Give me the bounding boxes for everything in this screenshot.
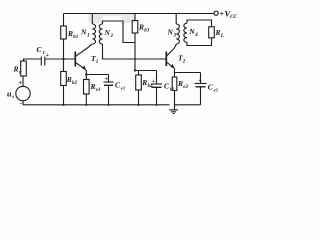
node base T1 junction dot [62, 58, 64, 60]
svg-text:CC: CC [230, 14, 237, 20]
wire N2 bottom to base T2 [103, 44, 166, 59]
svg-text:R: R [67, 29, 73, 38]
inductor N4 secondary [184, 23, 187, 42]
source us [16, 86, 30, 100]
terminal +Vcc circle [214, 11, 218, 15]
svg-text:u: u [7, 89, 12, 98]
wire N2 top to bias node [103, 21, 136, 43]
svg-text:s: s [11, 95, 14, 100]
capacitor C1 [40, 57, 42, 66]
svg-text:2: 2 [182, 60, 186, 65]
svg-text:1: 1 [96, 60, 99, 65]
node bias junction [134, 69, 136, 71]
svg-text:N: N [104, 28, 111, 37]
svg-text:L: L [220, 34, 224, 39]
inductor N1 primary [91, 14, 93, 25]
svg-text:e2: e2 [214, 88, 219, 93]
svg-text:e1: e1 [121, 86, 125, 91]
svg-text:R: R [215, 28, 221, 37]
svg-text:R: R [90, 82, 96, 91]
svg-text:+: + [105, 77, 109, 83]
inductor N2 secondary [99, 24, 102, 44]
svg-text:2: 2 [110, 34, 114, 39]
wire N4 to RL loop [187, 20, 212, 27]
svg-text:e2: e2 [183, 85, 188, 90]
wire base T1 [45, 58, 75, 60]
resistor Rb2 [63, 59, 65, 72]
wire bias node to Cb2 [135, 70, 157, 72]
resistor Rs [21, 61, 27, 76]
svg-text:s: s [18, 71, 21, 76]
wire emitter T2 to Ce2 [175, 72, 201, 74]
capacitor Ce1 [108, 75, 110, 83]
node emitter T1 junction dot [85, 73, 87, 75]
resistor Rb4 [138, 71, 140, 76]
svg-text:e1: e1 [96, 88, 101, 93]
svg-text:N: N [80, 28, 87, 37]
svg-text:R: R [177, 79, 183, 88]
wire top supply rail [64, 13, 214, 15]
resistor Rb3 [134, 14, 136, 21]
ground [169, 109, 178, 111]
inductor N3 primary [175, 14, 177, 25]
resistor Re2 [174, 73, 176, 78]
svg-text:1: 1 [87, 34, 90, 39]
svg-text:R: R [66, 75, 72, 84]
capacitor Ce2 [200, 73, 202, 84]
svg-text:R: R [138, 23, 144, 32]
label +Vcc [220, 9, 238, 20]
resistor RL [209, 27, 215, 38]
svg-text:+: + [198, 78, 202, 84]
svg-text:N: N [167, 28, 174, 37]
svg-text:N: N [188, 27, 195, 36]
transistor T2 [165, 52, 167, 67]
wire emitter T1 to Ce1 [86, 74, 108, 76]
svg-text:R: R [141, 78, 147, 87]
svg-text:3: 3 [173, 34, 177, 39]
resistor Rb1 [63, 14, 65, 27]
svg-text:b3: b3 [144, 29, 150, 34]
resistor Re1 [85, 75, 87, 80]
svg-text:R: R [13, 65, 19, 74]
svg-text:4: 4 [194, 33, 198, 38]
transistor T1 [74, 52, 76, 67]
wire Ce2 bottom to ground node [175, 104, 201, 106]
capacitor Cb2 [156, 71, 158, 85]
svg-text:+: + [152, 79, 156, 85]
svg-text:+: + [18, 79, 22, 87]
wire bottom ground rail [23, 104, 170, 106]
rail junction dots [62, 104, 64, 106]
scan artifact gray band [89, 14, 136, 23]
svg-text:b2: b2 [72, 81, 78, 86]
svg-text:+: + [46, 53, 50, 59]
svg-text:b1: b1 [73, 35, 78, 40]
